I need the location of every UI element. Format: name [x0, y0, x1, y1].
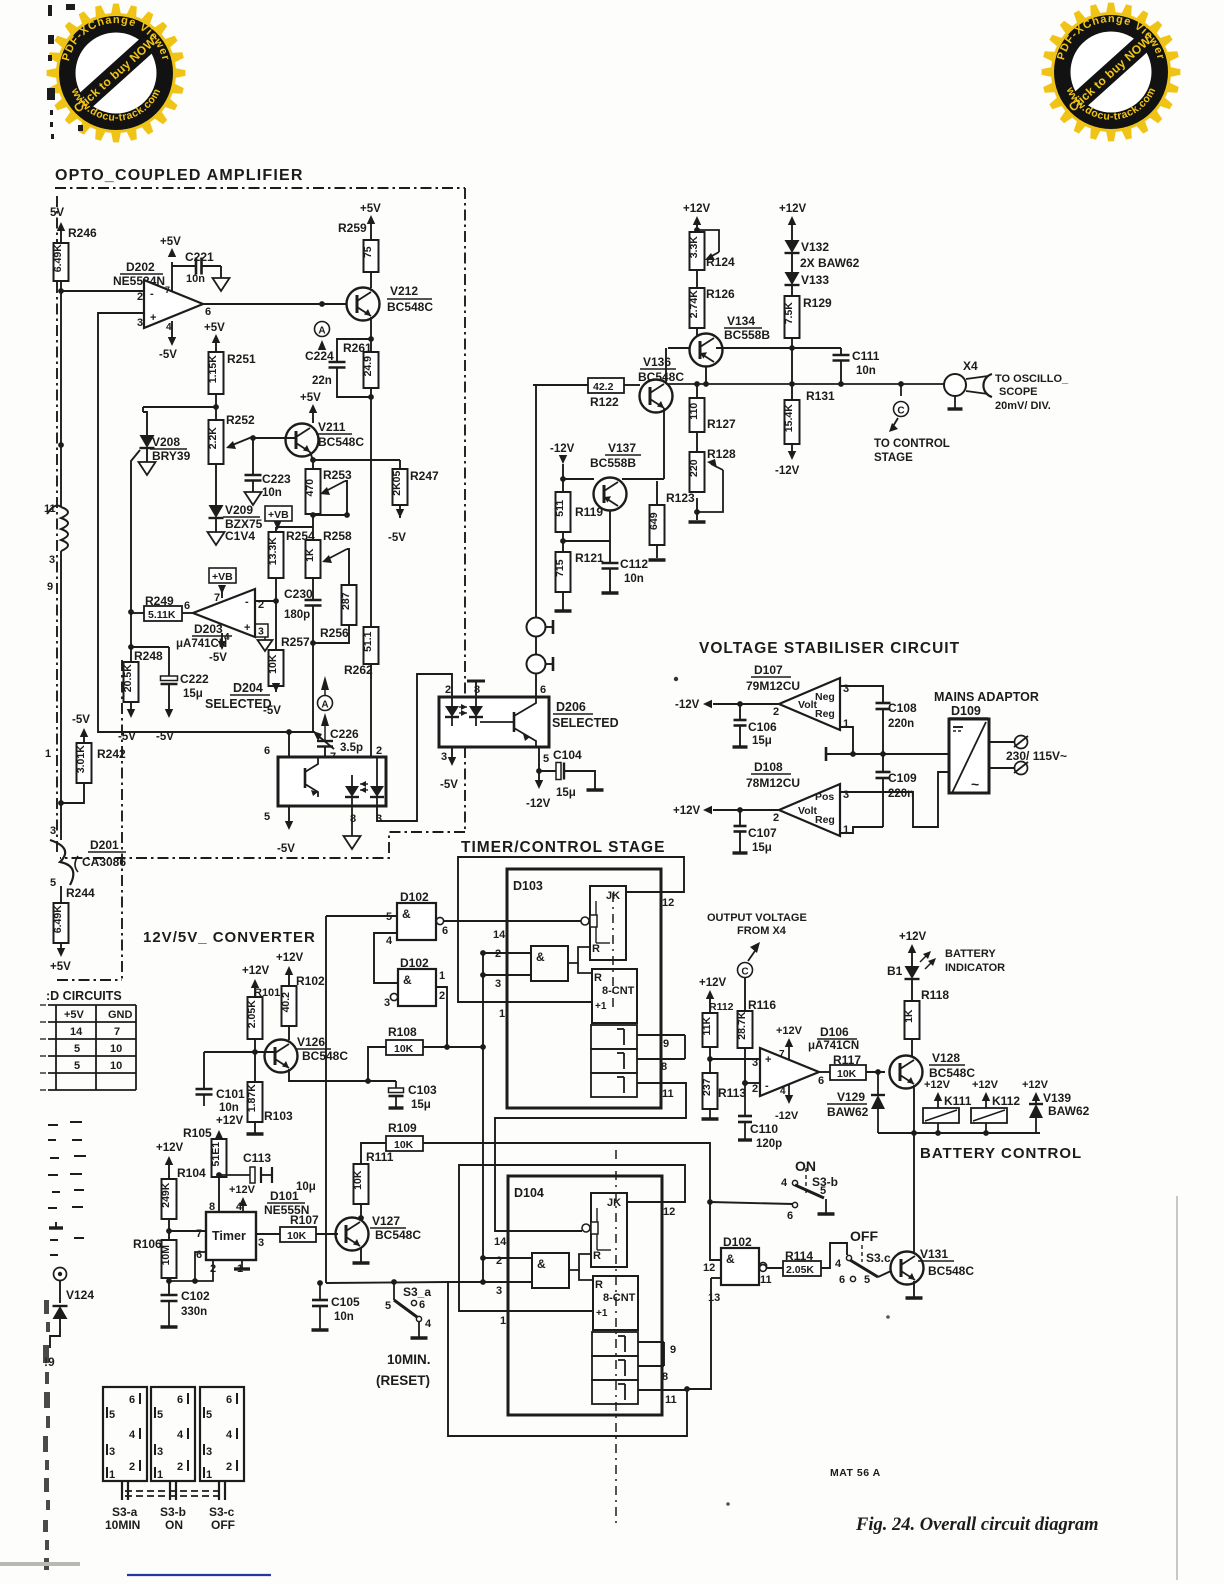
svg-text:BC548C: BC548C	[387, 300, 433, 314]
svg-text:R: R	[592, 943, 600, 955]
wire V134 base from V136 collector	[668, 347, 690, 349]
svg-text:C104: C104	[553, 748, 582, 762]
svg-text:120p: 120p	[756, 1138, 782, 1150]
svg-text:R119: R119	[575, 505, 603, 519]
svg-text:C: C	[897, 406, 904, 417]
svg-text:10μ: 10μ	[296, 1181, 316, 1193]
ground R103	[247, 1132, 264, 1135]
svg-text:C101: C101	[216, 1087, 245, 1101]
svg-text:6: 6	[196, 1249, 202, 1261]
svg-text:+1: +1	[596, 1308, 608, 1319]
ground X4	[954, 396, 956, 408]
transistor V126 BC548C	[265, 1040, 298, 1073]
ground bar artifact left	[55, 1222, 57, 1228]
svg-text:5: 5	[206, 1409, 212, 1421]
wire gate D102a pin5 input	[326, 915, 397, 917]
wire V211 base	[253, 437, 296, 439]
svg-text:2.2K: 2.2K	[207, 427, 219, 450]
svg-text:15μ: 15μ	[752, 735, 772, 747]
svg-text:OFF: OFF	[850, 1228, 878, 1244]
svg-text:R258: R258	[323, 529, 352, 543]
IC thick box	[507, 869, 661, 1108]
svg-text:V126: V126	[297, 1035, 325, 1049]
svg-text:1: 1	[500, 1315, 506, 1327]
ground D204 pin8	[351, 806, 353, 836]
svg-text:3: 3	[441, 751, 447, 763]
wire to op-amp pin2	[745, 1082, 760, 1084]
svg-text:+12V: +12V	[776, 1025, 803, 1037]
svg-text:3: 3	[843, 789, 849, 801]
svg-text:230/ 115V~: 230/ 115V~	[1006, 749, 1067, 763]
svg-text:BC548C: BC548C	[928, 1264, 974, 1278]
resistor R103 1.87K	[254, 1081, 256, 1083]
wire D204 pin7 top	[324, 747, 326, 758]
svg-text:C224: C224	[305, 349, 334, 363]
ground C102	[161, 1325, 178, 1328]
svg-text:VOLTAGE STABILISER CIRCUIT: VOLTAGE STABILISER CIRCUIT	[699, 640, 960, 657]
svg-text:R106: R106	[133, 1237, 162, 1251]
svg-text:+12V: +12V	[673, 805, 701, 817]
svg-text:2K05: 2K05	[391, 470, 403, 495]
svg-text:R102: R102	[296, 974, 325, 988]
svg-text:3: 3	[50, 825, 56, 837]
svg-text:+5V: +5V	[160, 236, 181, 248]
svg-text:470: 470	[304, 479, 316, 497]
svg-text:1: 1	[843, 718, 849, 730]
svg-text:10n: 10n	[186, 273, 205, 285]
svg-text:V133: V133	[801, 273, 829, 287]
D104 pin3 wire	[448, 1281, 532, 1283]
svg-text:15μ: 15μ	[411, 1099, 431, 1111]
svg-text:5: 5	[543, 753, 549, 765]
power -12V D106 pin4	[788, 1084, 790, 1098]
svg-text:SELECTED: SELECTED	[552, 716, 619, 730]
ground C106	[733, 745, 748, 748]
transistor V128 BC548C	[890, 1056, 923, 1089]
svg-text:R246: R246	[68, 226, 97, 240]
svg-text:BAW62: BAW62	[827, 1105, 869, 1119]
svg-text:Reg: Reg	[815, 708, 835, 720]
D103 output 8 wire	[637, 1058, 685, 1060]
svg-text:R113: R113	[718, 1086, 746, 1100]
wire gate D102a pin4 feedback	[374, 933, 398, 983]
svg-text:11: 11	[665, 1394, 677, 1406]
clock input bubble	[582, 1224, 590, 1232]
svg-text:6: 6	[129, 1394, 135, 1406]
switch box S3-a detail	[103, 1387, 147, 1481]
svg-text:R104: R104	[177, 1166, 206, 1180]
svg-text:ON: ON	[165, 1518, 183, 1532]
svg-text:10K: 10K	[267, 654, 279, 674]
pin3 box and ground of D203	[255, 624, 268, 637]
svg-text:R118: R118	[921, 988, 949, 1002]
svg-text:20.5K: 20.5K	[122, 664, 134, 692]
resistor R131 15.4K	[791, 384, 793, 400]
svg-text:8: 8	[661, 1061, 667, 1073]
svg-text:10: 10	[110, 1043, 122, 1055]
svg-text:2.05K: 2.05K	[246, 1000, 258, 1028]
capacitor C107 15u	[739, 810, 741, 826]
wire down to R248	[130, 612, 132, 662]
resistor R117 10K	[819, 1071, 830, 1073]
svg-text:3.3K: 3.3K	[688, 236, 700, 259]
svg-text:-5V: -5V	[159, 349, 177, 361]
svg-text:330n: 330n	[181, 1306, 207, 1318]
connector X4 to oscilloscope	[944, 374, 966, 396]
transistor V134 BC558B	[690, 334, 723, 367]
svg-text:R121: R121	[575, 551, 604, 565]
transistor V136 BC548C	[640, 380, 673, 413]
vertical bus R108 to D104	[482, 953, 484, 1282]
svg-text:9: 9	[47, 581, 53, 593]
svg-text:R111: R111	[366, 1150, 394, 1164]
svg-text:6: 6	[540, 684, 546, 696]
wire V211 emitter to R247/R253	[310, 452, 400, 460]
svg-text:5: 5	[74, 1060, 80, 1072]
svg-text:4: 4	[781, 1177, 788, 1189]
svg-text:10n: 10n	[856, 365, 876, 377]
resistor R127 110	[696, 384, 698, 398]
svg-text:D103: D103	[513, 879, 543, 893]
svg-text:2: 2	[177, 1461, 183, 1473]
wire D102c pin13	[711, 1277, 721, 1279]
svg-text:C107: C107	[748, 826, 777, 840]
svg-text:Timer: Timer	[212, 1229, 246, 1243]
svg-text:1K: 1K	[903, 1009, 915, 1023]
svg-text:4: 4	[425, 1318, 432, 1330]
svg-text:4: 4	[226, 1429, 233, 1441]
D103 pin2 wire	[483, 952, 531, 954]
power -5V C222	[165, 709, 173, 718]
svg-text:+5V: +5V	[360, 203, 381, 215]
pot bypass arrow R124	[697, 230, 719, 252]
svg-text:12: 12	[663, 1206, 675, 1218]
power +5V R259	[367, 215, 375, 224]
svg-text:10n: 10n	[334, 1311, 354, 1323]
svg-text:40.2: 40.2	[280, 992, 292, 1013]
svg-text:+12V: +12V	[899, 931, 927, 943]
svg-text:-5V: -5V	[72, 714, 90, 726]
svg-text:C226: C226	[330, 727, 359, 741]
resistor R119 511	[556, 492, 571, 532]
node A marker near V212	[315, 322, 330, 337]
svg-text:S3_a: S3_a	[403, 1285, 431, 1299]
wire gate D102b output down to R108	[436, 987, 447, 1047]
svg-text:V136: V136	[643, 355, 671, 369]
svg-text:+12V: +12V	[1022, 1079, 1049, 1091]
svg-text:51.1: 51.1	[362, 631, 374, 652]
wire R109 left to R111	[361, 1143, 386, 1164]
svg-text:2: 2	[376, 745, 382, 757]
svg-text:BATTERY CONTROL: BATTERY CONTROL	[920, 1145, 1082, 1162]
svg-text:V137: V137	[608, 441, 636, 455]
svg-text:10n: 10n	[262, 487, 282, 499]
svg-text:R105: R105	[183, 1126, 212, 1140]
svg-text:C223: C223	[262, 472, 291, 486]
svg-text:13: 13	[708, 1292, 720, 1304]
pin4 -5V of D202	[171, 321, 173, 337]
zener V209 BZX75 C1V4	[209, 505, 224, 518]
svg-text:5.11K: 5.11K	[148, 609, 176, 621]
svg-text:V132: V132	[801, 240, 829, 254]
svg-text:GND: GND	[108, 1009, 133, 1021]
D103 output 9 wire	[637, 1034, 685, 1036]
svg-text:(RESET): (RESET)	[376, 1373, 430, 1388]
D204 phototransistor	[304, 768, 307, 788]
wire V212 emitter down	[370, 317, 372, 352]
svg-text:V209: V209	[225, 503, 253, 517]
ground R113	[702, 1117, 719, 1120]
svg-text:8-CNT: 8-CNT	[603, 1292, 636, 1304]
svg-text:K112: K112	[992, 1094, 1020, 1108]
svg-text:220n: 220n	[888, 788, 914, 800]
svg-text:715: 715	[554, 559, 566, 577]
transistor V212 BC548C	[347, 288, 380, 321]
svg-text:BC558B: BC558B	[724, 328, 770, 342]
svg-text:R126: R126	[706, 287, 735, 301]
op-amp U D106 uA741CN	[760, 1048, 819, 1096]
svg-text:C222: C222	[180, 672, 209, 686]
wire S3-b pin6	[710, 1202, 793, 1204]
svg-text:R244: R244	[66, 886, 95, 900]
and gate output to R inputs	[569, 1254, 591, 1270]
svg-text:R242: R242	[97, 747, 126, 761]
capacitor C110 120p	[744, 1083, 746, 1116]
svg-text:649: 649	[648, 512, 660, 530]
svg-text:INDICATOR: INDICATOR	[945, 962, 1005, 974]
svg-text:5: 5	[820, 1185, 826, 1197]
svg-text:SELECTED: SELECTED	[205, 697, 272, 711]
svg-text:-: -	[245, 596, 249, 608]
svg-text:10: 10	[110, 1060, 122, 1072]
svg-text:+12V: +12V	[216, 1115, 244, 1127]
mid rail to mains adaptor	[826, 753, 949, 755]
svg-text:K111: K111	[944, 1094, 972, 1108]
wire V128 emitter down	[913, 1085, 915, 1253]
ground triangle V208	[146, 448, 148, 462]
svg-text:+12V: +12V	[779, 203, 807, 215]
svg-text:6: 6	[787, 1210, 793, 1222]
power -5V R248	[127, 709, 135, 718]
svg-text:42.2: 42.2	[593, 381, 614, 393]
resistor R126 2.74K	[696, 270, 698, 288]
wire D204 pin3 to D206 pin2	[377, 674, 452, 821]
timer pin2/6 loop	[195, 1252, 206, 1281]
wire R114 to S3-c	[821, 1243, 847, 1268]
svg-text:-5V: -5V	[156, 731, 174, 743]
resistor R105 51E1	[212, 1139, 227, 1177]
svg-text:10K: 10K	[394, 1139, 414, 1151]
svg-text:R123: R123	[666, 491, 695, 505]
svg-text:&: &	[536, 950, 545, 964]
svg-text:C112: C112	[620, 557, 648, 571]
svg-text:V134: V134	[727, 314, 755, 328]
svg-text:28.7K: 28.7K	[736, 1011, 748, 1039]
svg-text:7.5K: 7.5K	[783, 302, 795, 325]
svg-text:+12V: +12V	[229, 1184, 256, 1196]
wire V126 emitter	[289, 1069, 396, 1081]
ground triangle V209	[208, 532, 225, 545]
svg-text:11: 11	[760, 1274, 772, 1286]
svg-text:A: A	[318, 326, 325, 337]
svg-text:C230: C230	[284, 587, 313, 601]
wire gate feed vertical	[325, 916, 327, 1283]
svg-text:8: 8	[474, 684, 480, 696]
node C to control stage	[898, 381, 904, 387]
svg-text:1: 1	[439, 970, 445, 982]
svg-text:-5V: -5V	[277, 843, 295, 855]
svg-text:79M12CU: 79M12CU	[746, 679, 800, 693]
svg-text:BAW62: BAW62	[1048, 1104, 1090, 1118]
svg-text:X4: X4	[963, 359, 978, 373]
svg-text:S3-a: S3-a	[112, 1505, 138, 1519]
svg-text:&: &	[402, 907, 411, 921]
svg-text:3: 3	[49, 554, 55, 566]
node A marker above C226	[321, 676, 329, 690]
svg-text:R256: R256	[320, 626, 349, 640]
svg-text:R109: R109	[388, 1121, 417, 1135]
svg-text:V127: V127	[372, 1214, 400, 1228]
svg-text:511: 511	[554, 500, 566, 517]
power -5V D204 pin5	[288, 806, 290, 822]
svg-text:2: 2	[773, 706, 779, 718]
svg-text:3.01K: 3.01K	[75, 745, 87, 773]
svg-text:5: 5	[157, 1409, 163, 1421]
transistor V131 BC548C	[878, 1271, 891, 1277]
svg-text:2: 2	[137, 291, 143, 303]
svg-text:1: 1	[109, 1469, 115, 1481]
wire D108 pin1 to C109	[840, 827, 883, 833]
resistor R128 220 pot	[690, 452, 705, 492]
svg-text:S3-c: S3-c	[209, 1505, 235, 1519]
wire R251-R252 junction	[215, 394, 217, 420]
optocoupler D206 SELECTED	[439, 697, 549, 747]
svg-text:BATTERY: BATTERY	[945, 948, 996, 960]
svg-text:V131: V131	[920, 1247, 948, 1261]
counter output cells	[592, 1332, 638, 1356]
D103 output 11 wire loop to D104 pin14	[495, 1083, 686, 1231]
svg-text:180p: 180p	[284, 609, 310, 621]
svg-text:10M: 10M	[160, 1245, 172, 1266]
resistor R246	[54, 243, 69, 281]
capacitor C101 10n	[196, 1088, 213, 1091]
svg-text:7: 7	[214, 592, 220, 604]
+VB box label upper	[265, 506, 292, 521]
svg-text:7: 7	[114, 1026, 120, 1038]
dashed border converter box corner	[57, 979, 122, 981]
wire op-amp pin3 feedback loop	[98, 313, 315, 732]
dashed border opto box top	[55, 187, 465, 189]
wire D204 pin6 top	[288, 732, 290, 757]
svg-text:C111: C111	[852, 349, 880, 363]
svg-text:3: 3	[496, 1285, 502, 1297]
svg-text:+12V: +12V	[156, 1142, 184, 1154]
dashed border opto box left	[56, 196, 58, 855]
svg-text:V129: V129	[837, 1090, 865, 1104]
svg-text:+12V: +12V	[276, 952, 304, 964]
svg-text:220n: 220n	[888, 718, 914, 730]
svg-text:D107: D107	[754, 663, 783, 677]
svg-text:-12V: -12V	[526, 798, 551, 810]
svg-text:C221: C221	[185, 250, 214, 264]
wire R258 bottom to C230	[312, 578, 314, 600]
svg-text:OPTO_COUPLED AMPLIFIER: OPTO_COUPLED AMPLIFIER	[55, 167, 304, 184]
and gate	[531, 946, 568, 981]
svg-text:10n: 10n	[219, 1102, 239, 1114]
svg-text:2: 2	[752, 1083, 758, 1095]
svg-text:1: 1	[843, 824, 849, 836]
svg-text:OFF: OFF	[211, 1518, 235, 1532]
svg-text:R253: R253	[323, 468, 352, 482]
svg-text:2: 2	[773, 812, 779, 824]
svg-text:2X BAW62: 2X BAW62	[800, 256, 860, 270]
svg-text:D203: D203	[194, 622, 223, 636]
svg-text:75: 75	[362, 246, 374, 258]
svg-text:78M12CU: 78M12CU	[746, 776, 800, 790]
svg-text:D101: D101	[270, 1189, 299, 1203]
svg-text:4: 4	[386, 935, 393, 947]
thyristor V208 BRY39	[143, 412, 147, 435]
svg-text:MAINS ADAPTOR: MAINS ADAPTOR	[934, 690, 1039, 704]
ground V127 emitter	[360, 1247, 362, 1262]
ground C105	[312, 1328, 329, 1331]
ground V131	[913, 1281, 915, 1297]
svg-text:BRY39: BRY39	[152, 449, 191, 463]
svg-text:2: 2	[496, 1255, 502, 1267]
svg-text:D108: D108	[754, 760, 783, 774]
svg-text:B1: B1	[887, 964, 903, 978]
power -5V R257	[272, 683, 280, 692]
wire V137 base	[563, 478, 594, 480]
svg-text:24.9: 24.9	[362, 356, 374, 377]
transistor V211 BC548C	[286, 424, 319, 457]
svg-text:1K: 1K	[304, 548, 316, 562]
diode V132 BAW62	[785, 240, 800, 253]
wire left rail lower	[60, 560, 62, 803]
svg-text:R129: R129	[803, 296, 832, 310]
svg-text:5: 5	[109, 1409, 115, 1421]
D103 feedback loop wire pin12 over top	[458, 857, 684, 1002]
svg-text:2: 2	[226, 1461, 232, 1473]
wire R246 to op-amp pin2	[60, 281, 62, 291]
svg-text:+12V: +12V	[699, 977, 727, 989]
svg-text:10MIN: 10MIN	[105, 1518, 140, 1532]
svg-text:4: 4	[129, 1429, 136, 1441]
svg-text:-: -	[150, 288, 154, 300]
ground bar above D206 pin8	[475, 681, 477, 697]
svg-text:3: 3	[752, 1057, 758, 1069]
svg-text:-: -	[765, 1080, 769, 1092]
D104 output 8 wire	[638, 1365, 664, 1367]
svg-text:C108: C108	[888, 701, 917, 715]
svg-text:10K: 10K	[287, 1230, 307, 1242]
svg-text:-5V: -5V	[440, 779, 458, 791]
svg-text:+12V: +12V	[683, 203, 711, 215]
svg-text:D204: D204	[233, 681, 263, 695]
svg-text:15μ: 15μ	[556, 787, 576, 799]
svg-text:S3-b: S3-b	[160, 1505, 186, 1519]
ground triangle C221	[213, 278, 230, 291]
svg-text:R257: R257	[281, 635, 310, 649]
svg-text:9: 9	[670, 1344, 676, 1356]
ground R123	[649, 558, 666, 561]
capacitor C223 10n	[252, 438, 254, 475]
resistor R113 237	[703, 1073, 718, 1109]
dash-dot centre line D104	[615, 1150, 617, 1528]
capacitor C230 180p	[305, 599, 322, 602]
svg-text:TO CONTROL: TO CONTROL	[874, 438, 950, 450]
svg-text:5: 5	[74, 1043, 80, 1055]
